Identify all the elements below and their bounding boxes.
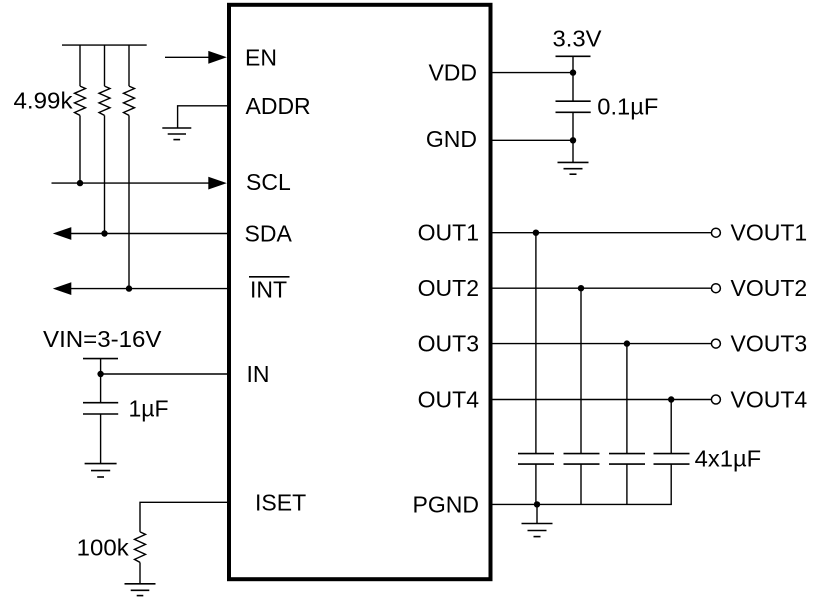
svg-text:OUT4: OUT4 <box>418 387 480 413</box>
junction dot (SDA / R-B) <box>101 230 107 236</box>
svg-text:OUT3: OUT3 <box>418 331 479 357</box>
svg-text:OUT2: OUT2 <box>418 275 479 301</box>
junction dot (INT / R-C) <box>126 285 132 291</box>
wire OUT2 drop <box>580 288 582 453</box>
capacitor C4 (OUT2) <box>564 454 600 465</box>
ADDR wire <box>178 106 228 128</box>
OUT3 wire <box>491 343 711 345</box>
wire C3 to PGND rail <box>535 464 537 504</box>
junction dot (VIN / IN) <box>97 371 103 377</box>
junction dot (SCL / R-A) <box>77 180 83 186</box>
junction dot (VDD) <box>570 69 576 75</box>
svg-text:OUT1: OUT1 <box>418 220 479 246</box>
junction dot (OUT3) <box>624 340 630 346</box>
junction dot (GND) <box>570 137 576 143</box>
IC body U1 <box>229 5 491 579</box>
wire PGND to ground <box>536 504 538 523</box>
EN arrowhead <box>208 51 227 64</box>
INT wire <box>68 288 228 290</box>
svg-text:1µF: 1µF <box>129 395 169 421</box>
svg-text:IN: IN <box>247 361 270 387</box>
svg-text:100k: 100k <box>77 534 130 560</box>
wire C5 to PGND rail <box>626 464 628 504</box>
svg-text:VOUT3: VOUT3 <box>731 331 808 357</box>
terminal circle VOUT3 <box>711 339 720 348</box>
ground (C2) <box>558 162 589 174</box>
IN wire <box>101 373 228 375</box>
svg-text:VOUT1: VOUT1 <box>731 220 808 246</box>
resistor R-C 4.99k (to INT) <box>124 45 135 289</box>
ground (R4) <box>125 584 156 596</box>
svg-text:SDA: SDA <box>245 221 293 247</box>
capacitor C6 (OUT4) <box>654 454 690 465</box>
capacitor C2 0.1uF <box>556 101 591 112</box>
ground (PGND) <box>522 524 553 537</box>
capacitor C1 1uF <box>83 403 118 414</box>
junction dot (OUT4) <box>668 396 674 402</box>
svg-text:SCL: SCL <box>246 169 291 195</box>
capacitor C3 (OUT1) <box>518 454 554 465</box>
PGND rail wire <box>491 503 672 505</box>
SDA arrowhead <box>53 227 72 240</box>
svg-text:4x1µF: 4x1µF <box>695 445 762 471</box>
terminal circle VOUT1 <box>711 228 720 237</box>
wire cap to ground <box>572 112 574 162</box>
wire OUT1 drop <box>535 233 537 454</box>
ISET wire <box>140 502 228 532</box>
svg-text:EN: EN <box>245 44 277 70</box>
resistor R-A 4.99k (to SCL) <box>75 45 86 183</box>
junction dot (OUT2) <box>578 285 584 291</box>
terminal circle VOUT2 <box>711 284 720 293</box>
svg-text:INT: INT <box>250 276 287 302</box>
SCL wire <box>52 182 212 184</box>
svg-text:ISET: ISET <box>255 489 306 515</box>
INT arrowhead <box>53 282 72 295</box>
OUT4 wire <box>491 399 711 401</box>
resistor R-B 4.99k (to SDA) <box>99 45 110 233</box>
wire C6 to PGND rail <box>670 464 672 504</box>
capacitor C5 (OUT3) <box>609 454 645 465</box>
GND wire <box>491 139 573 141</box>
svg-text:VDD: VDD <box>428 60 477 86</box>
svg-text:0.1µF: 0.1µF <box>597 94 658 120</box>
wire VIN down to cap <box>100 359 102 403</box>
svg-text:GND: GND <box>426 126 477 152</box>
svg-text:VOUT4: VOUT4 <box>731 387 808 413</box>
svg-text:VOUT2: VOUT2 <box>731 275 808 301</box>
wire OUT3 drop <box>626 344 628 454</box>
overline for INT <box>249 276 290 278</box>
ground (C1) <box>85 464 117 477</box>
OUT1 wire <box>491 232 711 234</box>
SCL arrowhead <box>208 177 227 190</box>
junction dot (PGND) <box>534 501 540 507</box>
OUT2 wire <box>491 287 711 289</box>
svg-text:4.99k: 4.99k <box>14 88 74 114</box>
VIN terminal bar <box>83 358 118 360</box>
pull-up rail wire <box>62 44 147 46</box>
svg-text:ADDR: ADDR <box>246 93 311 119</box>
resistor R4 100k <box>135 532 146 563</box>
terminal circle VOUT4 <box>711 395 720 404</box>
svg-text:3.3V: 3.3V <box>553 26 603 52</box>
SDA wire <box>68 233 228 235</box>
wire OUT4 drop <box>670 400 672 454</box>
VDD wire <box>491 72 573 74</box>
wire 3.3V down to cap <box>572 56 574 101</box>
EN input arrow wire <box>165 56 211 58</box>
svg-text:PGND: PGND <box>413 491 479 517</box>
junction dot (OUT1) <box>533 230 539 236</box>
ground (ADDR) <box>162 128 191 140</box>
wire R4 to ground <box>139 562 141 583</box>
svg-text:VIN=3-16V: VIN=3-16V <box>43 326 162 352</box>
3.3V terminal bar <box>556 55 591 57</box>
wire C4 to PGND rail <box>580 464 582 504</box>
wire cap to ground <box>100 414 102 464</box>
